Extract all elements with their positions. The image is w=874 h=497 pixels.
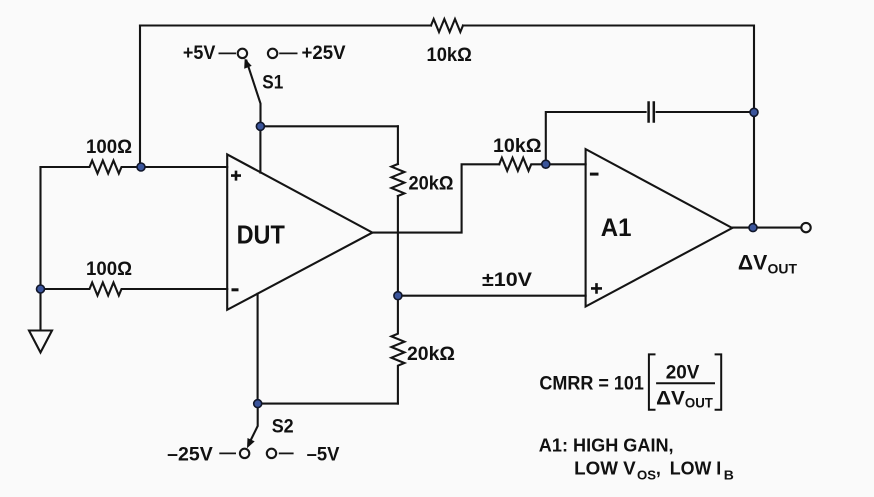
svg-text:LOW V: LOW V bbox=[574, 458, 636, 478]
pin label: A1 + input bbox=[591, 283, 602, 294]
wire: left vertical to ground node bbox=[39, 167, 41, 289]
svg-text:20kΩ: 20kΩ bbox=[409, 173, 454, 194]
terminal: output open circle bbox=[801, 223, 810, 232]
wire: -25V lead dash bbox=[219, 452, 236, 454]
wire: -5V lead dash bbox=[279, 452, 294, 454]
svg-text:20kΩ: 20kΩ bbox=[407, 344, 455, 365]
svg-text:10kΩ: 10kΩ bbox=[493, 136, 542, 157]
pin label: DUT + input bbox=[231, 171, 241, 181]
svg-text:S1: S1 bbox=[262, 72, 283, 93]
ground bbox=[29, 289, 52, 353]
wire: capacitor right lead bbox=[657, 111, 754, 113]
wire: A1 output to terminal bbox=[732, 227, 801, 229]
wire: DUT bottom edge to S2 node bbox=[257, 294, 259, 404]
junction: capacitor / right riser node bbox=[750, 108, 758, 116]
wire: top feedback rail (left segment) bbox=[140, 24, 431, 26]
resistor R6 10k (A1 inverting input) bbox=[499, 158, 546, 171]
svg-text:ΔV: ΔV bbox=[656, 388, 685, 410]
junction: ground node bbox=[37, 285, 45, 293]
junction: S1 node bbox=[256, 122, 264, 130]
switch S2 contact circle (-5V) bbox=[267, 449, 276, 458]
op-amp DUT (triangle) bbox=[227, 154, 372, 309]
svg-text:LOW I: LOW I bbox=[670, 458, 722, 478]
svg-text:S2: S2 bbox=[272, 416, 294, 437]
resistor R4 20k bottom (vertical zigzag) with leads bbox=[391, 296, 404, 404]
switch S2 contact circle (-25V) bbox=[240, 449, 249, 458]
switch S2 arrowhead bbox=[247, 438, 255, 448]
svg-text:20V: 20V bbox=[666, 363, 700, 384]
wire: divider bottom to S2 node bbox=[258, 403, 398, 405]
svg-text:OUT: OUT bbox=[768, 261, 798, 277]
formula fraction bar bbox=[656, 382, 715, 384]
wire: A1 inverting node to A1 bbox=[546, 163, 586, 165]
junction: ±10V divider midpoint bbox=[394, 292, 402, 300]
resistor R2 100 ohm (inverting input) with leads bbox=[41, 283, 228, 296]
pin label: A1 - input bbox=[590, 173, 599, 176]
svg-text:OUT: OUT bbox=[685, 396, 714, 411]
junction: S2 node bbox=[254, 400, 262, 408]
wire: ±10V node to A1 noninverting input bbox=[398, 295, 586, 297]
junction: output node bbox=[749, 224, 757, 232]
resistor R5 10k feedback (zigzag) bbox=[431, 19, 463, 32]
svg-text:OS: OS bbox=[637, 469, 656, 483]
svg-text:+5V: +5V bbox=[183, 43, 216, 64]
formula right bracket bbox=[715, 354, 722, 409]
formula left bracket bbox=[649, 354, 656, 409]
wire: DUT output up to R6 row bbox=[372, 164, 499, 232]
wire: top feedback rail (right segment) and right riser bbox=[463, 26, 754, 228]
wire: divider middle segment (crosses DUT output, no junction) bbox=[397, 196, 399, 296]
wire: S1 node down to DUT top edge bbox=[259, 126, 261, 172]
svg-text:–25V: –25V bbox=[167, 445, 213, 466]
switch S1 arrowhead bbox=[244, 58, 252, 68]
wire: top-left riser bbox=[139, 26, 141, 168]
pin label: DUT - input bbox=[232, 288, 239, 291]
svg-text:10kΩ: 10kΩ bbox=[427, 45, 472, 66]
svg-text:100Ω: 100Ω bbox=[86, 259, 132, 280]
svg-text:B: B bbox=[724, 469, 734, 483]
svg-text:±10V: ±10V bbox=[482, 270, 532, 291]
svg-text:ΔV: ΔV bbox=[738, 251, 767, 274]
svg-text:+25V: +25V bbox=[302, 43, 346, 64]
svg-text:DUT: DUT bbox=[237, 219, 285, 249]
switch S2 arm bbox=[249, 404, 258, 444]
wire: divider top lead bbox=[397, 126, 399, 164]
switch S1 contact circle (+5V) bbox=[238, 49, 247, 58]
resistor R1 100 ohm (noninverting input) with leads bbox=[41, 161, 228, 174]
capacitor C1 plates bbox=[649, 103, 654, 122]
wire: S1 node to divider top bbox=[260, 125, 398, 127]
wire: +25V lead dash bbox=[279, 52, 297, 54]
junction: R1 / top riser node bbox=[137, 163, 145, 171]
wire: capacitor branch (left lead) bbox=[546, 112, 646, 164]
svg-text:100Ω: 100Ω bbox=[86, 137, 132, 158]
wire: +5V lead dash bbox=[219, 52, 237, 54]
svg-text:A1: A1 bbox=[601, 214, 632, 242]
svg-text:CMRR = 101: CMRR = 101 bbox=[539, 372, 644, 394]
junction: A1 inverting node bbox=[542, 160, 550, 168]
svg-text:,: , bbox=[656, 458, 661, 478]
op-amp A1 (triangle) bbox=[586, 149, 733, 306]
svg-text:–5V: –5V bbox=[307, 445, 340, 466]
resistor R3 20k top (vertical zigzag) bbox=[391, 164, 404, 196]
switch S1 contact circle (+25V) bbox=[268, 49, 277, 58]
svg-text:A1: HIGH GAIN,: A1: HIGH GAIN, bbox=[539, 435, 674, 455]
switch S1 arm and wire to S1 node bbox=[246, 61, 260, 127]
